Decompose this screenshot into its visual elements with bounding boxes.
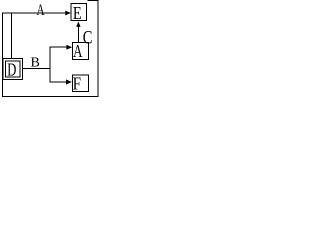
arrowhead into F: [66, 79, 72, 84]
box E: [71, 4, 86, 21]
wire edge B horizontal from D: [23, 68, 51, 70]
svg-text:A: A: [36, 1, 44, 18]
wire branch to F: [50, 81, 66, 83]
frame top-right segment: [88, 0, 99, 2]
arrowhead into E: [65, 11, 71, 16]
frame left: [2, 13, 4, 97]
svg-text:C: C: [83, 27, 93, 48]
svg-text:B: B: [31, 56, 40, 71]
svg-text:F: F: [73, 73, 81, 94]
wire edge A horizontal: [2, 12, 65, 14]
wire edge C vertical: [77, 27, 79, 43]
svg-text:D: D: [7, 61, 16, 81]
frame right: [97, 0, 99, 97]
svg-text:E: E: [73, 2, 82, 23]
frame bottom: [2, 96, 99, 98]
box A: [73, 43, 89, 60]
arrowhead into E bottom (edge C): [76, 21, 80, 27]
wire junction vertical: [49, 47, 51, 83]
wire branch to A: [50, 46, 67, 48]
wire edge A tail from D top: [11, 13, 13, 59]
svg-text:A: A: [73, 42, 83, 62]
box D outer: [3, 59, 23, 80]
box D inner: [5, 61, 20, 77]
arrowhead into A: [66, 45, 72, 50]
box F: [72, 75, 88, 92]
